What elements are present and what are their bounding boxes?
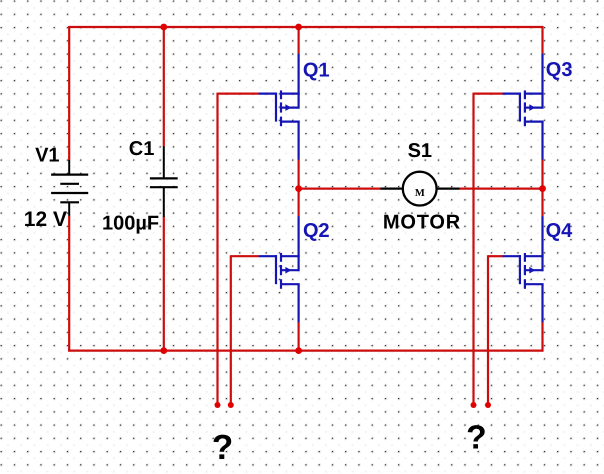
wire: Q4 gate to control pin 4	[488, 255, 503, 405]
wire: bottom rail (ground net)	[68, 350, 543, 352]
pin: Q2 gate control (open)	[228, 402, 234, 408]
svg-text:100µF: 100µF	[102, 213, 159, 235]
transistor Q3 (NMOS)	[503, 54, 544, 160]
wire: left motor node to motor left terminal	[299, 188, 381, 190]
svg-text:?: ?	[212, 428, 233, 467]
wire: V1 minus down to bottom rail	[68, 216, 70, 352]
junction: C1 bottom / bottom rail	[160, 347, 167, 354]
label: V1 value 12 V	[24, 208, 67, 231]
wire: right motor node to Q4 drain	[541, 189, 543, 217]
transistor Q1 (NMOS)	[259, 54, 300, 160]
junction: node B (Q3 source, Q4 drain, motor right)	[539, 185, 546, 192]
label: Q4 designator	[546, 220, 574, 242]
wire: C1 bottom lead to bottom rail	[163, 217, 165, 351]
svg-text:C1: C1	[129, 138, 155, 160]
svg-text:M: M	[415, 188, 425, 199]
label: Q1 designator	[303, 59, 330, 81]
wire: Q1 source to left motor node	[298, 159, 300, 188]
battery V1	[51, 160, 88, 216]
wire: Q4 source to bottom rail	[541, 322, 543, 352]
label: V1 designator	[35, 145, 59, 167]
wire: C1 top lead to top rail	[163, 26, 165, 146]
wire: Q2 gate to control pin 2	[231, 255, 259, 405]
wire: top rail (V+ net)	[68, 26, 543, 28]
pin: Q4 gate control (open)	[485, 402, 491, 408]
wire: Q2 source to bottom rail	[298, 322, 300, 351]
wire: left vertical from top rail to V1 plus	[68, 26, 70, 160]
junction: Q1 drain / top rail	[295, 24, 302, 31]
label: right gate pins unknown (?)	[466, 420, 486, 457]
motor S1	[380, 172, 459, 206]
transistor Q2 (NMOS)	[259, 216, 300, 322]
pin: Q3 gate control (open)	[471, 402, 477, 408]
svg-text:MOTOR: MOTOR	[383, 212, 461, 234]
label: C1 value 100µF	[102, 213, 159, 235]
capacitor C1	[150, 146, 178, 217]
svg-text:Q1: Q1	[303, 59, 330, 81]
label: Q3 designator	[546, 59, 573, 81]
wire: motor right terminal to right motor node	[460, 188, 543, 190]
pin: Q1 gate control (open)	[215, 402, 221, 408]
svg-text:V1: V1	[35, 145, 59, 167]
svg-text:Q2: Q2	[303, 220, 330, 242]
wire: Q1 gate to control pin 1	[218, 93, 259, 405]
svg-text:Q3: Q3	[546, 59, 573, 81]
svg-text:Q4: Q4	[546, 220, 574, 242]
label: C1 designator	[129, 138, 155, 160]
label: S1 value MOTOR	[383, 212, 461, 234]
junction: Q2 source / bottom rail	[295, 347, 302, 354]
label: left gate pins unknown (?)	[212, 428, 233, 467]
wire: Q3 source to right motor node	[541, 159, 543, 188]
wire: top rail to Q3 drain	[541, 26, 543, 54]
wire: left motor node to Q2 drain	[298, 189, 300, 217]
transistor Q4 (NMOS)	[503, 216, 544, 322]
svg-text:12 V: 12 V	[24, 208, 67, 231]
svg-text:?: ?	[466, 420, 486, 457]
label: S1 designator	[408, 140, 432, 162]
label: Q2 designator	[303, 220, 330, 242]
junction: node A (Q1 source, Q2 drain, motor left)	[295, 185, 302, 192]
junction: C1 top / top rail	[160, 24, 167, 31]
svg-text:S1: S1	[408, 140, 432, 162]
wire: Q3 gate to control pin 3	[474, 93, 503, 405]
wire: top rail to Q1 drain	[298, 26, 300, 54]
